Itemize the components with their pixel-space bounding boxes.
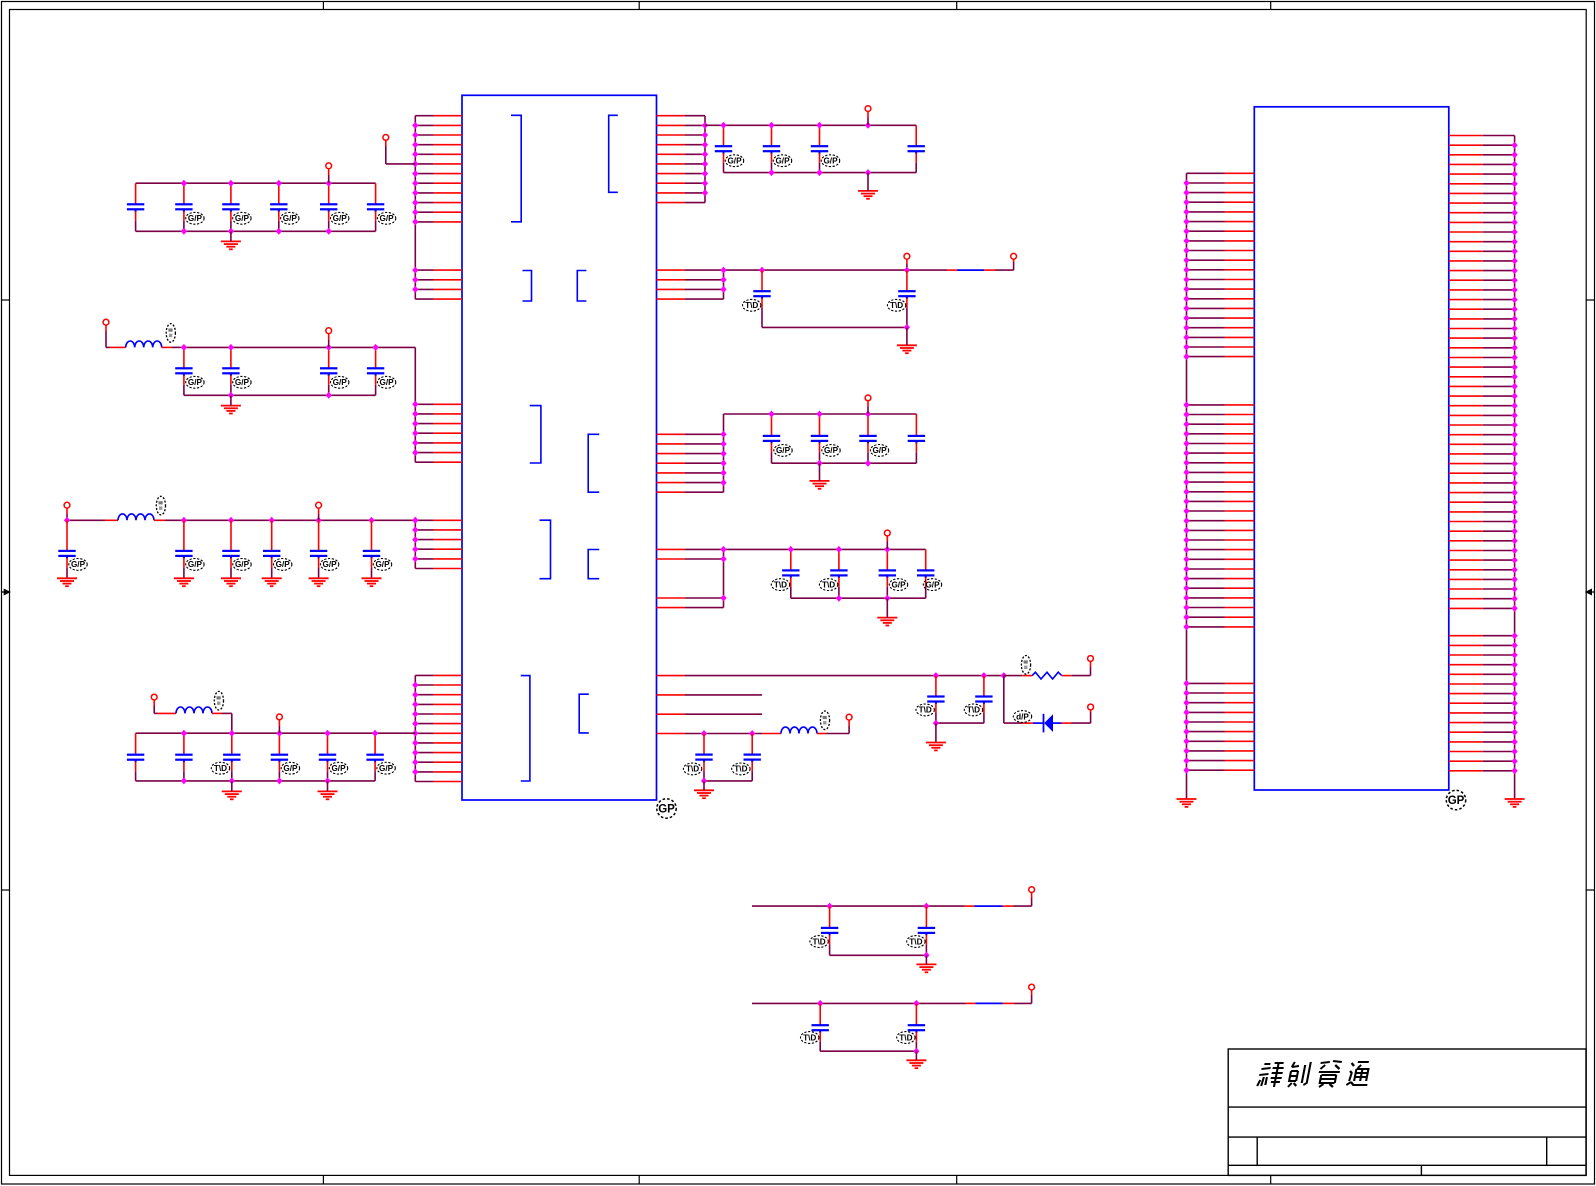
capacitor C14 bbox=[270, 183, 287, 231]
connector P14 bbox=[846, 714, 852, 720]
bead label bbox=[156, 496, 165, 515]
wire bbox=[886, 536, 888, 542]
junction bbox=[933, 720, 939, 727]
ground bbox=[897, 345, 917, 353]
capacitor C4x bbox=[271, 733, 288, 781]
wire bbox=[183, 569, 185, 578]
wire bank2 bottom bus bbox=[184, 394, 376, 396]
capacitor C3x bbox=[175, 520, 192, 569]
company name text bbox=[1257, 1061, 1372, 1087]
svg-text:G/P: G/P bbox=[872, 446, 887, 455]
wire bbox=[161, 346, 172, 348]
wire bbox=[936, 722, 984, 724]
capacitor C21 bbox=[175, 347, 192, 395]
wire bus C bbox=[414, 520, 416, 568]
wire bbox=[984, 269, 995, 271]
GP marker U2 bbox=[1446, 790, 1465, 809]
wire bbox=[1003, 676, 1005, 724]
wire bbox=[1090, 710, 1092, 712]
capacitor C11 bbox=[127, 183, 144, 231]
ground bbox=[57, 578, 77, 586]
U2 left pin group 3 bbox=[1187, 683, 1255, 770]
wire bbox=[704, 780, 752, 782]
wire bbox=[1015, 1002, 1032, 1004]
connector P9 bbox=[865, 106, 871, 112]
junctions net R2 bbox=[720, 267, 910, 293]
wire bbox=[1031, 893, 1033, 899]
svg-text:T\D: T\D bbox=[967, 706, 980, 715]
wire bbox=[222, 712, 232, 714]
svg-text:GP: GP bbox=[1448, 795, 1465, 807]
svg-text:G/P: G/P bbox=[235, 560, 250, 569]
wire bbox=[1022, 675, 1032, 677]
bead label bbox=[820, 711, 829, 730]
ground bbox=[916, 964, 936, 972]
wire bbox=[1004, 675, 1022, 677]
svg-text:T\D: T\D bbox=[214, 764, 227, 773]
U1 right pin group 1 bbox=[657, 116, 706, 203]
net label G/P bbox=[331, 212, 349, 224]
wire bank1 top bus bbox=[136, 182, 376, 184]
wire bbox=[935, 723, 937, 742]
wire bankR2 bottom bus bbox=[762, 326, 907, 328]
net label G/P bbox=[774, 445, 792, 457]
connector P17 bbox=[1029, 887, 1035, 893]
net label G/P bbox=[725, 155, 743, 167]
svg-text:G/P: G/P bbox=[283, 764, 298, 773]
ground bbox=[309, 578, 329, 586]
U2 left pin group 1 bbox=[1187, 173, 1255, 356]
U1 bracket 4 bbox=[577, 271, 586, 302]
net label G/P bbox=[331, 376, 349, 388]
junctions bank3 bbox=[64, 517, 419, 524]
svg-text:T\D: T\D bbox=[890, 301, 903, 310]
ground bbox=[221, 406, 241, 414]
wire bus B bbox=[414, 347, 416, 462]
wire bbox=[848, 726, 850, 734]
junctions bankX bbox=[827, 903, 930, 910]
wire bbox=[385, 140, 387, 146]
wire bbox=[278, 726, 280, 733]
junctions bus D bbox=[412, 682, 418, 776]
wire bbox=[1062, 722, 1072, 724]
net label T\D bbox=[887, 299, 905, 311]
ground bbox=[926, 743, 946, 751]
wire bbox=[327, 781, 329, 792]
net label G/P bbox=[186, 212, 204, 224]
net label G/P bbox=[233, 559, 251, 571]
inductor L4 bbox=[781, 727, 817, 733]
svg-text:G/P: G/P bbox=[331, 764, 346, 773]
wire bbox=[925, 955, 927, 964]
diode D1 bbox=[1044, 714, 1054, 733]
svg-text:T\D: T\D bbox=[734, 765, 747, 774]
capacitor C3x bbox=[58, 520, 75, 569]
wire bankX bus bbox=[752, 905, 965, 907]
svg-text:T\D: T\D bbox=[686, 765, 699, 774]
svg-text:T\D: T\D bbox=[803, 1033, 816, 1042]
ground bbox=[221, 241, 241, 249]
net label G/P bbox=[923, 579, 941, 591]
capacitor C bbox=[744, 734, 761, 781]
svg-text:GP: GP bbox=[658, 804, 675, 816]
wire bank4 bottom bus bbox=[136, 780, 376, 782]
wire net R5d bbox=[685, 733, 762, 735]
junctions bankY bbox=[817, 1000, 919, 1007]
wire bankR4 bottom bus bbox=[791, 597, 926, 599]
wire net stub2 bbox=[685, 713, 762, 715]
junction bbox=[913, 1048, 919, 1055]
wire bankY bus bbox=[752, 1002, 966, 1004]
wire bankR4 top bus bbox=[685, 548, 926, 550]
connector P5 bbox=[64, 502, 70, 508]
svg-text:G/P: G/P bbox=[71, 560, 86, 569]
wire bus R1 bbox=[704, 116, 706, 203]
capacitor C bbox=[811, 414, 828, 463]
wire bankR3 bottom bus bbox=[772, 462, 917, 464]
ground bbox=[810, 481, 830, 489]
capacitor C15 bbox=[320, 183, 337, 231]
IC U1 body bbox=[462, 95, 657, 800]
net label G/P bbox=[377, 212, 395, 224]
svg-text:G/P: G/P bbox=[235, 214, 250, 223]
net label T\D bbox=[771, 579, 789, 591]
wire bank3 bus right bbox=[165, 519, 415, 521]
wire bbox=[1090, 666, 1092, 675]
wire bbox=[886, 542, 888, 550]
net label G/P bbox=[274, 559, 292, 571]
capacitor C4x bbox=[175, 733, 192, 781]
wire net R5a bbox=[685, 675, 1004, 677]
wire net stub1 bbox=[685, 694, 762, 696]
wire bbox=[231, 713, 233, 733]
net label G/P bbox=[889, 579, 907, 591]
net label G/P bbox=[329, 762, 347, 774]
jumper W3 bbox=[976, 1002, 1003, 1004]
IC U2 body bbox=[1254, 107, 1449, 790]
capacitor C bbox=[917, 549, 934, 598]
svg-text:T\D: T\D bbox=[899, 1033, 912, 1042]
connector P16 bbox=[1088, 704, 1094, 710]
wire bus U2 left bbox=[1186, 173, 1188, 799]
svg-text:T\D: T\D bbox=[774, 580, 787, 589]
net label T\D bbox=[732, 763, 750, 775]
capacitor C bbox=[927, 676, 944, 724]
connector P3 bbox=[103, 319, 109, 325]
U1 bracket 1 bbox=[511, 115, 521, 222]
wire bbox=[867, 401, 869, 407]
net label G/P bbox=[281, 762, 299, 774]
wire bbox=[1003, 905, 1014, 907]
wire bbox=[66, 514, 68, 520]
wire bbox=[1031, 990, 1033, 995]
svg-text:G/P: G/P bbox=[188, 378, 203, 387]
wire net R2 bbox=[685, 269, 907, 271]
capacitor C bbox=[782, 549, 799, 598]
capacitor C bbox=[975, 676, 992, 724]
wire bbox=[318, 514, 320, 520]
U1 left pin group 5 bbox=[415, 675, 462, 781]
capacitor C4x bbox=[127, 733, 144, 781]
U1 bracket 5 bbox=[530, 406, 541, 463]
wire bbox=[328, 334, 330, 340]
svg-text:G/P: G/P bbox=[727, 157, 742, 166]
wire bus U2 right bbox=[1514, 136, 1516, 800]
connector P8 bbox=[277, 714, 283, 720]
svg-text:G/P: G/P bbox=[235, 378, 250, 387]
wire bbox=[328, 340, 330, 347]
net label G/P bbox=[870, 445, 888, 457]
wire bbox=[154, 519, 165, 521]
net label G/P bbox=[281, 212, 299, 224]
wire bbox=[906, 259, 908, 264]
wire bus R2 bbox=[723, 270, 725, 299]
svg-text:G/P: G/P bbox=[925, 580, 940, 589]
connector P13 bbox=[884, 530, 890, 536]
junction bbox=[904, 324, 910, 331]
svg-text:T\D: T\D bbox=[745, 301, 758, 310]
U1 right pin group 5 bbox=[657, 676, 686, 734]
U1 right pin group 3 bbox=[657, 434, 724, 492]
net label T\D bbox=[683, 763, 701, 775]
net label T\D bbox=[211, 762, 229, 774]
capacitor C bbox=[763, 414, 780, 463]
capacitor C3x bbox=[222, 520, 239, 569]
wire bbox=[371, 569, 373, 578]
wire bbox=[703, 781, 705, 790]
svg-text:G/P: G/P bbox=[283, 214, 298, 223]
wire bbox=[867, 407, 869, 415]
junctions bus R3 bbox=[720, 431, 726, 486]
U1 bracket 3 bbox=[523, 271, 532, 302]
wire bbox=[906, 264, 908, 270]
wire bbox=[271, 569, 273, 578]
U1 left pin group 4 bbox=[415, 520, 462, 568]
wire bbox=[328, 169, 330, 175]
wire bus R3 bbox=[723, 414, 725, 492]
net label G/P bbox=[320, 559, 338, 571]
U1 bracket 6 bbox=[588, 434, 599, 492]
wire bbox=[278, 720, 280, 726]
svg-text:G/P: G/P bbox=[775, 157, 790, 166]
ground bbox=[858, 191, 878, 199]
wire bbox=[153, 700, 155, 706]
capacitor C bbox=[811, 125, 828, 172]
wire bbox=[110, 346, 126, 348]
net label G/P bbox=[233, 212, 251, 224]
wire bbox=[172, 346, 184, 348]
junctions bus C bbox=[412, 517, 418, 563]
wire bbox=[105, 331, 107, 347]
svg-text:T\D: T\D bbox=[909, 937, 922, 946]
capacitor C16 bbox=[367, 183, 384, 231]
wire bus D bbox=[414, 675, 416, 781]
ground bbox=[906, 1060, 926, 1068]
capacitor C bbox=[908, 414, 925, 463]
capacitor C bbox=[859, 414, 876, 463]
jumper W2 bbox=[975, 905, 1003, 907]
capacitor C4x bbox=[366, 733, 383, 781]
net label d/P bbox=[1013, 711, 1031, 723]
wire bankR3 top bus bbox=[724, 413, 917, 415]
capacitor C bbox=[898, 270, 915, 327]
capacitor C4x bbox=[319, 733, 336, 781]
U1 bracket 9 bbox=[521, 676, 530, 781]
junctions bankR1 bbox=[720, 122, 871, 176]
wire bbox=[154, 712, 158, 714]
junctions bank1 bbox=[181, 180, 332, 235]
wire bbox=[318, 508, 320, 514]
wire bbox=[1090, 661, 1092, 666]
U2 right pin group 2 bbox=[1449, 636, 1515, 771]
wire bbox=[1062, 675, 1072, 677]
capacitor C12 bbox=[175, 183, 192, 231]
wire bbox=[1031, 995, 1033, 1003]
svg-text:G/P: G/P bbox=[380, 214, 395, 223]
capacitor C3x bbox=[363, 520, 380, 569]
ground U2 right bbox=[1505, 799, 1525, 807]
wire bbox=[230, 395, 232, 405]
capacitor C bbox=[908, 125, 925, 172]
connector P12 bbox=[865, 395, 871, 401]
svg-text:G/P: G/P bbox=[379, 764, 394, 773]
ground bbox=[222, 791, 242, 799]
ground bbox=[174, 578, 194, 586]
capacitor C13 bbox=[222, 183, 239, 231]
capacitor C22 bbox=[222, 347, 239, 395]
svg-text:G/P: G/P bbox=[188, 214, 203, 223]
net label T\D bbox=[743, 299, 761, 311]
svg-text:G/P: G/P bbox=[323, 560, 338, 569]
wire bbox=[1090, 712, 1092, 723]
ground bbox=[221, 578, 241, 586]
U2 left pin group 2 bbox=[1187, 405, 1255, 627]
svg-text:T\D: T\D bbox=[812, 937, 825, 946]
svg-text:G/P: G/P bbox=[824, 446, 839, 455]
wire bbox=[1072, 722, 1091, 724]
junction bbox=[923, 952, 929, 959]
wire bbox=[212, 712, 222, 714]
U2 right pin group 1 bbox=[1449, 136, 1515, 609]
capacitor C bbox=[918, 906, 935, 955]
ground bbox=[362, 578, 382, 586]
capacitor C4x bbox=[223, 733, 240, 781]
svg-text:G/P: G/P bbox=[276, 560, 291, 569]
net label G/P bbox=[773, 155, 791, 167]
net label T\D bbox=[897, 1032, 915, 1044]
capacitor C bbox=[695, 734, 712, 781]
wire bbox=[965, 905, 975, 907]
junctions bankR3 bbox=[768, 411, 871, 467]
U1 right pin group 2 bbox=[657, 270, 724, 299]
svg-text:G/P: G/P bbox=[375, 560, 390, 569]
ground bbox=[694, 790, 714, 798]
connector P4 bbox=[326, 328, 332, 334]
connector P11 bbox=[904, 253, 910, 259]
net label G/P bbox=[822, 445, 840, 457]
capacitor C24 bbox=[367, 347, 384, 395]
bead label bbox=[166, 324, 175, 343]
connector P15 bbox=[1088, 656, 1094, 662]
capacitor C bbox=[908, 1003, 925, 1051]
wire bbox=[995, 269, 1014, 271]
wire bbox=[105, 519, 118, 521]
wire bbox=[105, 325, 107, 331]
wire bbox=[848, 720, 850, 726]
net label G/P bbox=[821, 155, 839, 167]
net label T\D bbox=[916, 704, 934, 716]
wire bbox=[906, 327, 908, 345]
wire bank4 top bus bbox=[136, 732, 416, 734]
wire bus A bbox=[414, 116, 416, 299]
net label T\D bbox=[801, 1032, 819, 1044]
inductor L3 bbox=[176, 707, 212, 713]
junctions bus U2 right bbox=[1512, 142, 1518, 775]
bead label bbox=[214, 691, 223, 710]
wire bbox=[820, 1050, 916, 1052]
wire bbox=[1072, 675, 1091, 677]
junctions bus U2 left bbox=[1183, 180, 1189, 774]
U1 left pin group 2 bbox=[415, 270, 462, 299]
net label T\D bbox=[907, 936, 925, 948]
GP marker U1 bbox=[657, 799, 676, 818]
net label G/P bbox=[377, 376, 395, 388]
svg-text:d/P: d/P bbox=[1016, 712, 1029, 721]
junctions bus R1 bbox=[702, 122, 708, 196]
U1 bracket 2 bbox=[609, 115, 618, 192]
ground bbox=[877, 618, 897, 626]
net label G/P bbox=[186, 376, 204, 388]
U1 left pin group 1 bbox=[415, 116, 462, 222]
wire bus R4 bbox=[723, 549, 725, 607]
ground bbox=[318, 791, 338, 799]
svg-text:G/P: G/P bbox=[823, 157, 838, 166]
wire bbox=[867, 112, 869, 118]
net label G/P bbox=[69, 559, 87, 571]
wire bbox=[328, 175, 330, 183]
capacitor C bbox=[821, 906, 838, 955]
capacitor C bbox=[715, 125, 732, 172]
wire bank3 bus bbox=[67, 519, 105, 521]
wire bbox=[158, 712, 176, 714]
wire bbox=[1004, 722, 1022, 724]
wire bbox=[153, 706, 155, 713]
wire bbox=[830, 954, 927, 956]
U1 bracket 10 bbox=[579, 694, 589, 733]
svg-text:G/P: G/P bbox=[380, 378, 395, 387]
wire bank2 top bus bbox=[184, 346, 415, 348]
svg-text:T\D: T\D bbox=[919, 706, 932, 715]
svg-text:G/P: G/P bbox=[188, 560, 203, 569]
svg-text:G/P: G/P bbox=[333, 378, 348, 387]
resistor R1 bbox=[1032, 672, 1062, 679]
wire bbox=[1003, 1002, 1015, 1004]
wire bbox=[1022, 722, 1033, 724]
wire bbox=[230, 569, 232, 578]
junctions bank2 bbox=[181, 344, 379, 399]
capacitor C bbox=[753, 270, 770, 327]
net label G/P bbox=[186, 559, 204, 571]
wire bbox=[1033, 722, 1044, 724]
connector P10 bbox=[1011, 253, 1017, 259]
wire bbox=[318, 569, 320, 578]
wire bbox=[867, 173, 869, 191]
wire bankR1 top bus bbox=[705, 124, 916, 126]
wire bbox=[867, 118, 869, 126]
wire bbox=[1031, 898, 1033, 906]
junctions bus A bbox=[412, 122, 418, 293]
connector P2 bbox=[326, 163, 332, 169]
